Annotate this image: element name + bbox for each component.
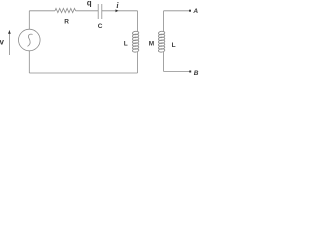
AC source sine squiggle [28,34,33,46]
svg-text:q: q [87,0,92,7]
secondary top horizontal to A [164,10,190,12]
svg-text:L: L [124,41,128,48]
wire below left coil [137,52,139,73]
AC source circle [19,29,41,51]
svg-text:R: R [64,19,69,26]
resistor R [55,8,76,12]
voltage arrow shaft [8,30,10,55]
secondary top vertical [163,11,165,32]
secondary bottom vertical [163,52,165,72]
svg-text:A: A [192,8,198,15]
terminal dot A [189,10,191,12]
wire resistor to capacitor [76,10,99,12]
secondary bottom horizontal to B [164,71,190,73]
wire top horizontal left of resistor [29,10,55,12]
svg-text:L: L [172,42,176,49]
terminal dot B [189,71,191,73]
wire capacitor to corner [102,10,138,12]
wire top-left vertical [28,11,30,29]
wire bottom-left vertical [28,51,30,73]
svg-text:M: M [149,41,154,48]
wire bottom horizontal [29,72,137,74]
svg-text:B: B [194,70,199,77]
svg-text:v: v [0,37,5,46]
current arrow i [116,9,119,12]
capacitor C plate left [97,4,99,19]
inductor L primary coil [132,31,139,53]
svg-text:i: i [116,1,119,10]
voltage arrow head [8,30,11,33]
wire top-right vertical down to coil [137,11,139,32]
svg-text:C: C [98,23,103,30]
capacitor C plate right [101,4,103,19]
inductor L secondary coil [158,31,165,53]
